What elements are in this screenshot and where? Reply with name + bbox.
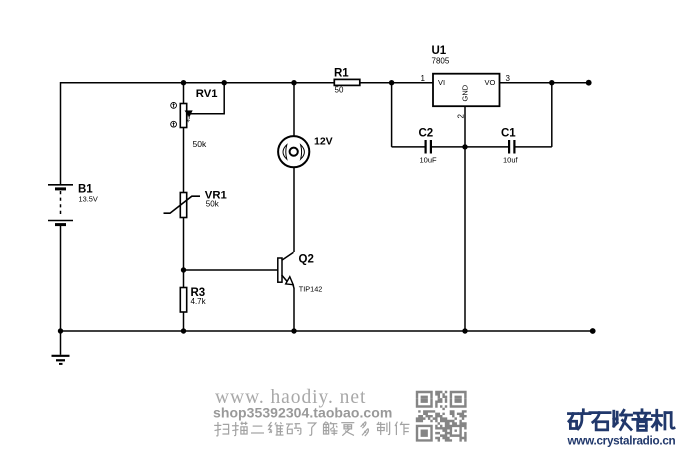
regulator U1 box xyxy=(433,74,500,107)
logo crystalradio xyxy=(568,410,674,431)
watermark char 5 xyxy=(286,424,301,435)
terminal marker circle 1 xyxy=(171,103,177,109)
varistor VR1 body xyxy=(180,193,186,218)
watermark char 2 xyxy=(232,422,247,436)
wire left rail lower (battery to bottom) xyxy=(60,226,62,332)
resistor R1 body xyxy=(334,79,360,85)
svg-text:1: 1 xyxy=(421,74,426,83)
svg-text:13.5V: 13.5V xyxy=(79,194,98,203)
wire buzzer to Q2 collector xyxy=(293,168,295,253)
varistor VR1 diagonal stroke xyxy=(164,196,201,213)
potentiometer RV1 wiper arrow xyxy=(185,111,192,117)
watermark char 9 xyxy=(361,422,369,436)
watermark char 8 xyxy=(341,423,354,436)
capacitor C2 xyxy=(426,140,431,154)
wire base of Q2 xyxy=(184,269,278,271)
svg-text:GND: GND xyxy=(461,84,470,101)
svg-text:TIP142: TIP142 xyxy=(299,284,323,293)
watermark scan-qr-for-more text xyxy=(214,422,409,436)
wire left rail upper (to battery) xyxy=(60,82,62,185)
svg-text:50k: 50k xyxy=(193,139,207,149)
svg-text:C1: C1 xyxy=(501,128,516,140)
wire RV1 to VR1 xyxy=(183,128,185,193)
node dot bottom rail at R3 xyxy=(181,328,186,333)
svg-text:12V: 12V xyxy=(314,136,333,148)
logo char 3 xyxy=(614,410,632,429)
wire bottom rail xyxy=(61,330,593,332)
watermark char 3 xyxy=(251,426,264,433)
node dot bottom rail at battery xyxy=(58,328,63,333)
wire cap bus segment 2 xyxy=(430,146,508,148)
wire RV1 top lead xyxy=(183,82,185,104)
node dot base junction xyxy=(181,267,186,272)
node terminal dot bottom right xyxy=(590,328,596,334)
node dot top rail at C2 drop xyxy=(389,80,394,85)
node dot top rail at RV1 xyxy=(181,80,186,85)
node dot top rail at C1 drop xyxy=(549,80,554,85)
watermark char 7 xyxy=(324,422,338,436)
wire cap bus segment 1 xyxy=(392,146,425,148)
svg-text:10uf: 10uf xyxy=(503,156,519,165)
svg-text:4.7k: 4.7k xyxy=(191,297,207,306)
wire R3 bottom lead xyxy=(183,312,185,331)
resistor R3 body xyxy=(180,288,186,313)
wire top rail middle segment (R1 to U1) xyxy=(360,82,433,84)
watermark char 4 xyxy=(269,422,284,435)
svg-text:R1: R1 xyxy=(334,68,349,80)
wire node B to R3 xyxy=(183,270,185,288)
svg-text:C2: C2 xyxy=(419,128,434,140)
logo char 1 xyxy=(568,410,590,429)
potentiometer RV1 body xyxy=(180,104,186,128)
node dot bottom rail at U1 GND xyxy=(462,328,467,333)
node dot cap bus at GND pin xyxy=(462,144,467,149)
wire VR1 to node B xyxy=(183,218,185,271)
svg-text:U1: U1 xyxy=(432,45,447,57)
node terminal dot output xyxy=(586,80,592,86)
logo char 5 xyxy=(652,410,674,430)
wire top rail left segment xyxy=(61,82,335,84)
svg-text:50k: 50k xyxy=(206,200,220,209)
capacitor C1 xyxy=(509,140,514,154)
watermark char 10 xyxy=(377,422,390,435)
buzzer LS1 12V xyxy=(278,136,309,167)
terminal marker circle 3 xyxy=(171,121,177,127)
node dot bottom rail at Q2 emitter xyxy=(291,328,296,333)
svg-text:RV1: RV1 xyxy=(196,88,218,100)
wire cap bus segment 3 xyxy=(514,146,552,148)
svg-text:2: 2 xyxy=(457,114,466,119)
wire C2 left vertical drop xyxy=(391,82,393,147)
wire C1 right vertical drop xyxy=(551,82,553,147)
svg-text:50: 50 xyxy=(335,86,344,95)
svg-text:VO: VO xyxy=(485,78,496,87)
logo char 4 xyxy=(633,410,651,431)
transistor Q2 xyxy=(278,252,294,288)
logo char 2 xyxy=(590,413,610,430)
svg-text:7805: 7805 xyxy=(432,57,450,66)
svg-text:VI: VI xyxy=(438,78,445,87)
node dot top rail at buzzer xyxy=(291,80,296,85)
node dot top rail at wiper xyxy=(222,80,227,85)
wire buzzer top lead xyxy=(293,82,295,136)
watermark char 11 xyxy=(395,422,409,435)
svg-text:10uF: 10uF xyxy=(420,156,438,165)
wire U1 output segment xyxy=(500,82,589,84)
wire U1 GND pin to bottom rail xyxy=(464,106,466,331)
svg-text:shop35392304.taobao.com: shop35392304.taobao.com xyxy=(213,405,392,421)
svg-text:Q2: Q2 xyxy=(299,254,314,266)
svg-text:www.crystalradio.cn: www.crystalradio.cn xyxy=(567,435,676,448)
wire Q2 emitter to bottom rail xyxy=(293,288,295,331)
ground xyxy=(52,331,70,364)
battery B1 xyxy=(48,185,73,225)
wire RV1 wiper horizontal xyxy=(190,82,224,114)
QR code xyxy=(416,391,467,442)
watermark char 6 xyxy=(308,423,316,435)
watermark char 1 xyxy=(214,422,228,436)
svg-text:3: 3 xyxy=(506,74,511,83)
